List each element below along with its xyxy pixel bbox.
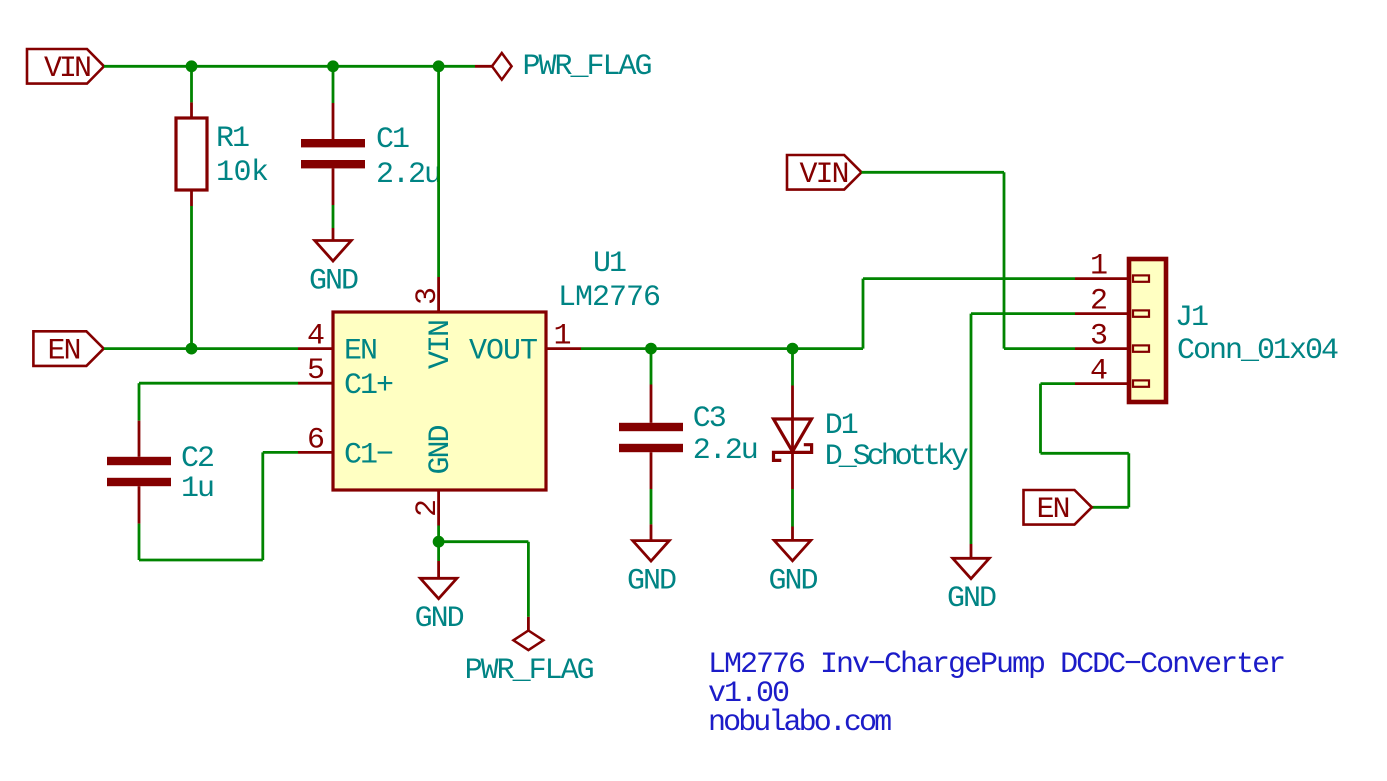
pin 2 GND (bottom): [411, 425, 458, 525]
wire to D1: [791, 349, 794, 386]
wire J1 pin2 row: [971, 312, 1075, 315]
svg-text:C1: C1: [376, 123, 409, 157]
svg-text:Conn_01x04: Conn_01x04: [1177, 334, 1338, 368]
op-amp U1 LM2776 body: [333, 247, 660, 490]
svg-text:VOUT: VOUT: [469, 335, 537, 369]
global label VIN (right): [787, 155, 862, 192]
node junction at VIN pin3 drop: [433, 60, 445, 72]
wire VOUT up to pin1 row: [862, 279, 865, 349]
wire VIN top bus: [104, 65, 475, 68]
svg-text:2: 2: [411, 501, 445, 517]
wire VOUT to J1 pin1: [863, 277, 1075, 280]
ground GND (under U1 pin2): [415, 561, 464, 636]
node junction at C1 top: [327, 60, 339, 72]
ground GND (under D1): [768, 527, 817, 599]
global label EN (right): [1024, 490, 1092, 527]
pin 4 (J1): [1075, 355, 1149, 389]
ground GND (under C3): [627, 524, 676, 598]
svg-text:R1: R1: [216, 122, 249, 156]
svg-text:EN: EN: [48, 335, 80, 369]
pin 4 EN (left): [298, 320, 376, 369]
pin 1 (J1): [1075, 250, 1149, 284]
wire EN to U1 pin4: [104, 347, 298, 350]
wire VIN to J1 pin3: [1004, 347, 1075, 350]
wire pin4 down: [1039, 384, 1042, 454]
svg-text:U1: U1: [593, 247, 626, 281]
svg-text:1: 1: [554, 320, 571, 354]
svg-text:GND: GND: [309, 265, 358, 299]
wire PWR_FLAG drop: [527, 542, 530, 617]
diode D1 D_Schottky: [774, 386, 968, 490]
svg-text:VIN: VIN: [800, 158, 848, 192]
svg-text:C1−: C1−: [344, 438, 393, 472]
wire D1 to GND: [791, 489, 794, 527]
wire jog vertical: [1127, 453, 1130, 507]
svg-text:C3: C3: [693, 402, 726, 436]
power flag PWR_FLAG (bottom): [465, 617, 594, 688]
svg-text:GND: GND: [947, 582, 996, 616]
node junction EN / R1: [186, 343, 198, 355]
svg-text:GND: GND: [424, 425, 458, 474]
wire down to C2: [138, 383, 141, 421]
svg-text:C1+: C1+: [344, 369, 393, 403]
node junction at R1 top: [186, 60, 198, 72]
wire R1 top: [190, 66, 193, 102]
svg-text:2.2u: 2.2u: [376, 158, 440, 192]
pin 1 VOUT (right): [469, 320, 581, 369]
svg-text:PWR_FLAG: PWR_FLAG: [523, 50, 652, 84]
node junction C3 top: [645, 343, 657, 355]
svg-text:4: 4: [307, 320, 324, 354]
svg-text:5: 5: [307, 354, 324, 388]
wire to C3: [650, 349, 653, 385]
svg-text:VIN: VIN: [44, 52, 90, 86]
pin 3 (J1): [1075, 320, 1149, 354]
svg-text:10k: 10k: [216, 156, 269, 190]
pin 6 C1- (left): [298, 423, 393, 472]
power flag PWR_FLAG (top): [475, 50, 652, 84]
pin 5 C1+ (left): [298, 354, 393, 403]
wire pin5 row: [139, 382, 298, 385]
wire VIN drop to U1 pin3: [437, 66, 440, 277]
svg-text:GND: GND: [415, 602, 464, 636]
capacitor C3: [619, 385, 757, 490]
global label VIN (top left): [27, 49, 104, 86]
svg-text:nobulabo.com: nobulabo.com: [708, 706, 891, 740]
capacitor C1: [301, 103, 440, 205]
svg-text:GND: GND: [768, 565, 817, 599]
wire EN right to jog: [1092, 506, 1129, 509]
wire up to pin6 row: [261, 452, 264, 560]
global label EN (left): [33, 331, 103, 368]
svg-text:6: 6: [307, 423, 324, 457]
svg-text:VIN: VIN: [424, 321, 458, 369]
wire C2 bottom: [138, 524, 141, 560]
pin 2 (J1): [1075, 285, 1149, 319]
svg-text:3: 3: [411, 288, 445, 305]
wire C1 to GND: [332, 205, 335, 228]
wire C1 top: [332, 66, 335, 103]
wire U1 pin2 to junction: [437, 526, 440, 562]
wire C3 to GND: [650, 489, 653, 524]
svg-text:1: 1: [1090, 250, 1107, 284]
wire J1 pin4 row: [1041, 382, 1076, 385]
svg-text:EN: EN: [1037, 493, 1069, 527]
wire C2 bottom horizontal: [139, 559, 263, 562]
svg-text:J1: J1: [1175, 301, 1208, 335]
pin 3 VIN (top): [411, 277, 458, 369]
svg-text:1u: 1u: [181, 472, 213, 506]
svg-text:2.2u: 2.2u: [693, 434, 757, 468]
svg-text:LM2776 Inv−ChargePump DCDC−Con: LM2776 Inv−ChargePump DCDC−Converter: [708, 648, 1284, 682]
svg-text:D_Schottky: D_Schottky: [825, 440, 968, 474]
wire jog horizontal: [1041, 452, 1129, 455]
svg-text:3: 3: [1090, 320, 1107, 354]
title text block: [708, 648, 1284, 740]
wire VIN right horizontal: [862, 171, 1005, 174]
ground GND (under J1 pin2): [947, 544, 996, 616]
svg-text:PWR_FLAG: PWR_FLAG: [465, 654, 594, 688]
wire VOUT row: [581, 347, 863, 350]
wire junction to PWR_FLAG drop: [439, 540, 529, 543]
connector J1 body: [1129, 259, 1338, 402]
node junction D1 top: [787, 343, 799, 355]
ground GND (under C1): [309, 228, 358, 299]
node junction pin2 gnd: [433, 536, 445, 548]
svg-text:GND: GND: [627, 565, 676, 599]
capacitor C2: [107, 421, 213, 524]
resistor R1: [176, 102, 269, 206]
svg-text:LM2776: LM2776: [558, 281, 660, 315]
svg-text:EN: EN: [344, 335, 376, 369]
wire R1 bottom to EN row: [190, 206, 193, 349]
wire pin6 row: [263, 451, 298, 454]
wire VIN right vertical: [1003, 172, 1006, 348]
svg-text:D1: D1: [825, 409, 858, 443]
svg-text:2: 2: [1090, 285, 1106, 319]
svg-text:4: 4: [1090, 355, 1107, 389]
svg-text:C2: C2: [181, 442, 213, 476]
wire J1 pin2 down to GND: [970, 314, 973, 544]
